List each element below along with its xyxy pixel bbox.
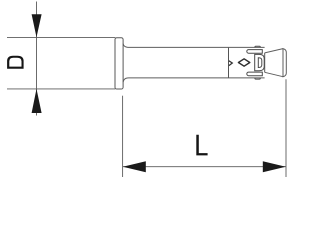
- extension line D bottom: [7, 88, 115, 90]
- arrowhead D bottom: [32, 89, 42, 113]
- cone top slant: [265, 49, 283, 53]
- sleeve start line: [228, 48, 230, 78]
- bottom slot: [247, 72, 262, 76]
- body bottom outline with fillet: [123, 78, 265, 82]
- extension line D top: [7, 36, 115, 38]
- cone bottom slant: [265, 72, 283, 76]
- top tab: [255, 46, 260, 47]
- diamond hole: [238, 59, 249, 66]
- arrowhead D top: [32, 14, 42, 37]
- anchor head flange: [115, 38, 123, 89]
- arrowhead L left: [123, 161, 146, 172]
- top slot: [247, 50, 262, 54]
- cone end cap: [283, 49, 286, 77]
- body top outline with fillet: [123, 44, 265, 48]
- arrowhead L right: [263, 161, 286, 172]
- chevron notch: [229, 61, 232, 66]
- extension line L left: [122, 96, 124, 177]
- label L: [196, 135, 207, 156]
- cone face: [264, 53, 266, 73]
- D-shaped stamp inner counter: [258, 58, 262, 68]
- dimension line D vertical: [36, 2, 38, 116]
- D-shaped stamp outer: [255, 54, 265, 70]
- label D: [7, 56, 24, 69]
- dimension line L: [123, 166, 286, 168]
- bottom tab: [255, 78, 260, 79]
- extension line L right: [285, 79, 287, 177]
